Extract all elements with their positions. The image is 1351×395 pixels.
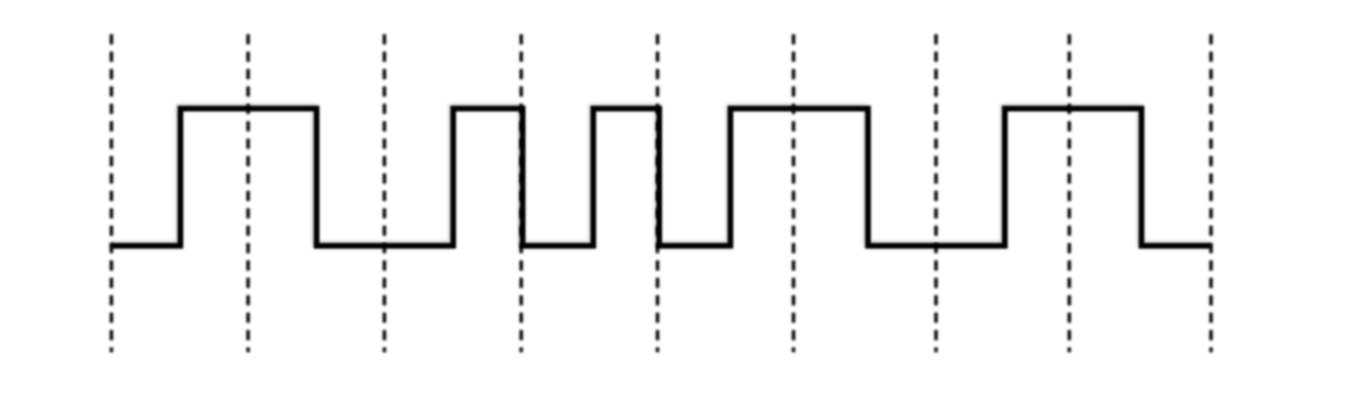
bit-cell boundary dashed line 6 [792, 34, 795, 352]
bit-cell boundary dashed line 2 [246, 34, 249, 352]
bit-cell boundary dashed line 1 [110, 34, 113, 352]
bit-cell boundary dashed line 5 [656, 34, 659, 352]
bit-cell boundary dashed line 3 [383, 34, 386, 352]
bit-cell boundary dashed line 8 [1068, 34, 1071, 352]
bit-cell boundary dashed line 4 [520, 34, 523, 352]
bit-cell boundary dashed line 7 [934, 34, 937, 352]
bit-cell boundary dashed line 9 [1209, 34, 1212, 352]
wire: Manchester-encoded signal waveform [111, 109, 1210, 246]
